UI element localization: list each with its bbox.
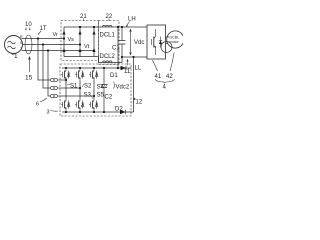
zero-phase CT 10 (ellipse around lines) [25, 35, 32, 54]
node mid leg2 [79, 87, 81, 89]
wire phase T [22, 50, 95, 52]
node tap R [37, 37, 39, 39]
diode D1 [121, 66, 127, 70]
label 3 leader [51, 110, 59, 113]
label 1 leader [11, 53, 15, 56]
svg-text:12: 12 [136, 100, 143, 106]
svg-text:D2: D2 [115, 107, 123, 113]
diode arrows upper [62, 31, 95, 53]
svg-text:11: 11 [124, 69, 131, 75]
label 6 leader [40, 98, 47, 102]
svg-text:41: 41 [155, 74, 162, 80]
node tap T [47, 49, 49, 51]
svg-text:Vdc2: Vdc2 [116, 85, 130, 91]
bottom bus of bridge [62, 111, 134, 113]
IGBT S3 (lower leg1) [61, 98, 70, 112]
svg-text:C2: C2 [105, 95, 113, 101]
connector 5a [51, 78, 61, 81]
svg-text:S3: S3 [84, 93, 92, 99]
inverter box 41 [147, 25, 166, 59]
node minus link12 [132, 56, 134, 58]
encoder circle [161, 42, 172, 53]
svg-text:S1: S1 [70, 84, 78, 90]
leader 41 [153, 60, 158, 71]
IGBT S1 [61, 68, 70, 80]
node r-leg1 [63, 37, 65, 39]
node bottom leg1 [65, 111, 67, 113]
arrow 1T [38, 31, 41, 35]
wire tap S drop [43, 45, 51, 89]
svg-text:10: 10 [25, 22, 32, 28]
svg-text:Vs: Vs [68, 37, 75, 43]
node minus C1 [121, 56, 123, 58]
top bus of bridge [62, 67, 131, 69]
capacitor C1 [121, 27, 123, 57]
leader 21 [83, 19, 85, 22]
connector 5c [51, 94, 61, 97]
wire step down [99, 57, 123, 63]
brace 4 [155, 79, 175, 83]
wire up to minus rail [121, 57, 123, 63]
svg-text:DCL1: DCL1 [100, 33, 116, 39]
svg-text:3: 3 [47, 110, 50, 116]
svg-text:DCL2: DCL2 [100, 54, 116, 60]
LH leader [127, 22, 130, 26]
reactor DCL1 [103, 25, 113, 27]
IGBT S2 [75, 68, 84, 80]
node top leg2 [79, 67, 81, 69]
Vdc detector [130, 31, 132, 53]
svg-text:6: 6 [36, 102, 39, 108]
rectifier leg 3 [93, 27, 95, 57]
wire tap T drop [48, 51, 51, 97]
IGBT lower leg2 [75, 98, 84, 112]
node t-leg3 [93, 49, 95, 51]
reactor DCL2 [103, 61, 113, 63]
node top leg1 [65, 67, 67, 69]
wire tap R inside [61, 79, 66, 81]
node bus leg3 [93, 26, 95, 28]
Vdc2 arc [114, 82, 115, 89]
svg-text:Vdc: Vdc [134, 40, 144, 46]
leader 22 [108, 19, 110, 22]
arrows under 10 [26, 28, 30, 30]
node bus leg2 [79, 26, 81, 28]
connector 5b [51, 86, 61, 89]
rectifier leg 2 [79, 27, 81, 57]
inverter dashed box 3 [60, 64, 131, 116]
wire tap R drop [38, 39, 51, 81]
DCL dashed box 22 [99, 21, 120, 65]
node bottom leg2 [79, 111, 81, 113]
leg mid wires [66, 80, 94, 98]
IGBT U1 inside inverter [151, 29, 162, 55]
svg-text:LL: LL [135, 66, 142, 72]
svg-text:S2: S2 [84, 84, 92, 90]
rectifier bottom bus [64, 56, 99, 58]
wire link plus [117, 27, 119, 68]
svg-text:C1: C1 [112, 46, 120, 52]
wire tap T inside [61, 95, 94, 97]
svg-text:42: 42 [166, 74, 173, 80]
svg-text:S5: S5 [97, 93, 105, 99]
node plus link [117, 26, 119, 28]
svg-text:D1: D1 [110, 73, 118, 79]
node bottom leg3 [93, 111, 95, 113]
node top D1 [117, 67, 119, 69]
motor circle 42 [167, 31, 184, 48]
wire tap S inside [61, 87, 80, 89]
wire motor u [166, 36, 170, 38]
node top leg3 [93, 67, 95, 69]
svg-text:Vt: Vt [84, 44, 90, 50]
svg-text:Vr: Vr [53, 32, 58, 38]
wire motor v [166, 43, 168, 45]
wire phase S [23, 44, 81, 46]
converter dashed box 21 [61, 21, 99, 61]
DC minus rail [122, 56, 147, 58]
IGBT S4 [89, 68, 98, 80]
wire link minus 12 [133, 57, 135, 112]
svg-text:4: 4 [163, 85, 167, 91]
capacitor C2 [103, 68, 105, 112]
leader 42 [170, 53, 174, 72]
node bottom C2 [103, 111, 105, 113]
DC plus rail [64, 26, 147, 28]
diode D2 [120, 110, 126, 115]
svg-text:motor: motor [170, 40, 180, 44]
rectifier leg 1 [63, 27, 65, 57]
AC source G1 [5, 36, 23, 54]
svg-text:DCBL: DCBL [170, 36, 180, 40]
node mid leg1 [65, 79, 67, 81]
svg-text:15: 15 [25, 75, 33, 82]
node s-leg2 [79, 43, 81, 45]
IGBT S5 (lower leg3) [89, 98, 98, 112]
arrow 15 [29, 59, 31, 72]
node mid leg3 [93, 95, 95, 97]
wire phase R [22, 38, 65, 40]
node top C2 [103, 67, 105, 69]
node tap S [42, 43, 44, 45]
svg-text:1: 1 [14, 53, 18, 60]
node plus C1 [121, 26, 123, 28]
